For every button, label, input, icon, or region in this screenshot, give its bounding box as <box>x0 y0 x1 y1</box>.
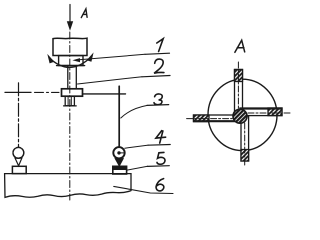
view A vertical centerline through up blade <box>237 62 239 108</box>
right cone <box>115 159 123 166</box>
leader for part 3 <box>121 105 148 118</box>
label A front view <box>81 9 87 18</box>
rotation arc <box>47 52 93 67</box>
left ball <box>13 147 24 158</box>
label 4 <box>148 131 170 146</box>
left cone <box>15 158 22 166</box>
cutter body circle <box>208 79 277 150</box>
view A horizontal centerline through right blade <box>248 112 292 114</box>
label 2 <box>142 59 170 77</box>
center line of spindle <box>69 32 71 200</box>
part 3 beam left segment <box>5 91 59 93</box>
label 5 <box>147 152 169 166</box>
leader for part 6 <box>114 186 173 193</box>
base plate part 6 <box>5 174 131 198</box>
part 1 nut <box>59 56 83 66</box>
label 6 <box>156 179 164 191</box>
leader for part 4 <box>125 145 149 148</box>
leader for part 2 <box>78 77 143 84</box>
nut bottom flange <box>57 65 85 67</box>
label A view <box>235 40 245 52</box>
leader for part 5 <box>127 166 148 170</box>
blade down <box>241 116 249 161</box>
hub shaft section <box>233 109 247 123</box>
right support block part 5 <box>113 166 127 174</box>
right hanger rod <box>118 86 120 147</box>
right ball indicator <box>113 147 124 158</box>
blade up <box>235 70 243 117</box>
label 1 <box>145 39 170 55</box>
part 3 beam right segment <box>83 93 126 95</box>
leader for part 1 <box>72 54 145 62</box>
view A horizontal centerline through left blade <box>187 118 232 120</box>
label 3 <box>147 94 169 105</box>
force arrow A <box>67 5 73 31</box>
blade right <box>240 108 282 116</box>
spindle tip below hub <box>64 96 77 106</box>
view A vertical centerline through down blade <box>244 123 246 167</box>
part 2 spindle shaft <box>68 66 77 89</box>
part 1 head block <box>53 38 87 55</box>
left hanger rod <box>18 83 20 148</box>
beam hub box <box>62 89 83 96</box>
left support block <box>12 166 26 173</box>
blade left <box>194 115 241 122</box>
